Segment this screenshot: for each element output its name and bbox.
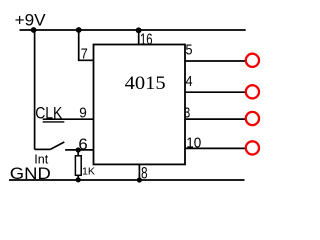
svg-text:16: 16 (140, 32, 153, 49)
svg-text:CLK: CLK (35, 103, 63, 122)
svg-text:6: 6 (78, 137, 87, 154)
svg-text:4: 4 (186, 73, 193, 90)
svg-text:GND: GND (10, 165, 51, 183)
svg-text:1K: 1K (82, 166, 95, 178)
svg-text:8: 8 (141, 164, 148, 183)
svg-text:4015: 4015 (125, 73, 166, 94)
svg-text:3: 3 (184, 105, 191, 122)
svg-text:7: 7 (81, 45, 88, 62)
svg-text:10: 10 (186, 135, 201, 152)
svg-text:+9V: +9V (15, 11, 47, 30)
svg-text:9: 9 (79, 104, 87, 121)
svg-text:5: 5 (186, 41, 193, 58)
